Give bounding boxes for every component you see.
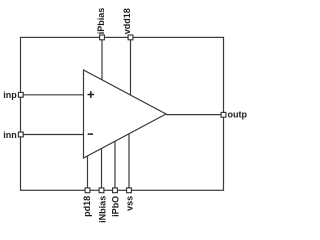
svg-text:outp: outp (228, 109, 248, 119)
wire outp (166, 114, 224, 116)
svg-text:vss: vss (125, 196, 135, 211)
pin square vss (127, 188, 132, 193)
pin square iPbO (113, 188, 118, 193)
wire pd18 (87, 156, 89, 191)
wire inp (21, 94, 84, 96)
svg-text:vdd18: vdd18 (122, 8, 132, 34)
pin square pd18 (85, 188, 90, 193)
pin square iPbias (100, 35, 105, 40)
pin square outp (221, 112, 226, 117)
pin square inn (18, 132, 23, 137)
plus input marker (88, 91, 94, 98)
wire vss (128, 134, 130, 191)
svg-text:iPbO: iPbO (111, 196, 121, 217)
pin square vdd18 (128, 35, 133, 40)
wire iPbias (101, 37, 103, 80)
svg-text:inn: inn (3, 130, 17, 140)
svg-text:inp: inp (3, 90, 17, 100)
svg-text:iPbias: iPbias (96, 8, 106, 35)
wire iPbO (114, 141, 116, 190)
wire iNbias (101, 148, 103, 190)
op-amp U1 (84, 70, 167, 158)
pin square inp (18, 92, 23, 97)
svg-text:pd18: pd18 (82, 196, 92, 217)
wire inn (21, 134, 84, 136)
wire vdd18 (130, 37, 132, 95)
symbol boundary rectangle (21, 37, 224, 190)
svg-text:iNbias: iNbias (98, 196, 108, 223)
minus input marker (88, 133, 93, 135)
pin square iNbias (99, 188, 104, 193)
